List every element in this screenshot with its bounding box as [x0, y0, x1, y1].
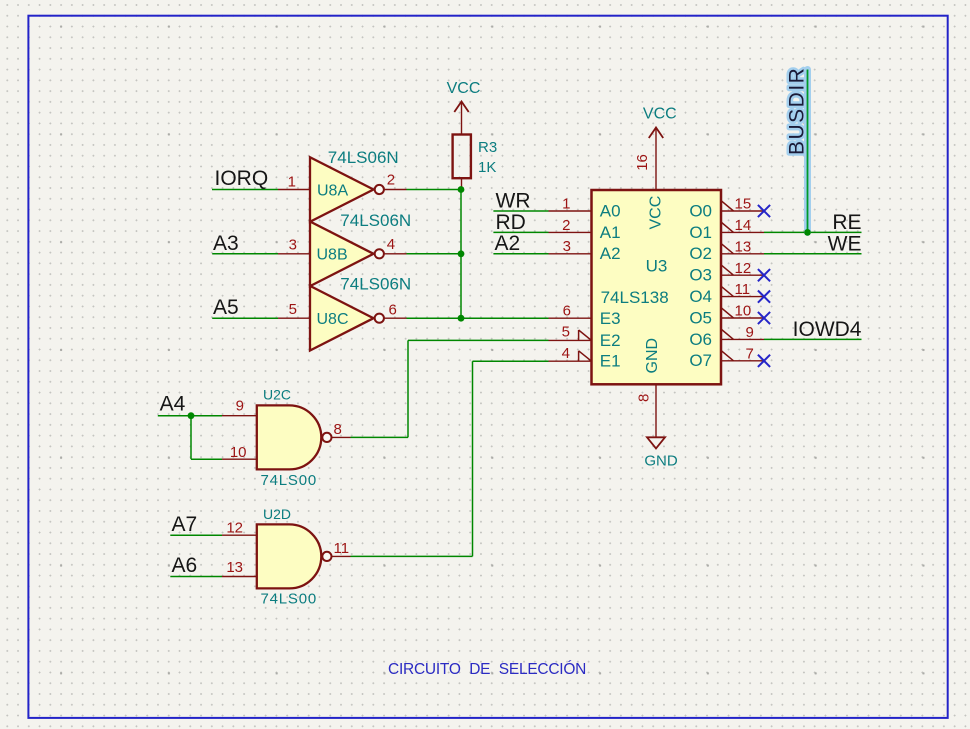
svg-text:A6: A6 — [172, 554, 198, 577]
svg-text:2: 2 — [387, 172, 395, 189]
svg-text:BUSDIR: BUSDIR — [786, 67, 809, 155]
svg-text:A2: A2 — [495, 232, 521, 255]
svg-text:16: 16 — [634, 154, 651, 171]
svg-text:74LS00: 74LS00 — [261, 591, 318, 608]
svg-text:74LS06N: 74LS06N — [328, 148, 399, 167]
svg-text:74LS138: 74LS138 — [601, 288, 669, 307]
svg-text:13: 13 — [735, 238, 752, 255]
svg-text:6: 6 — [563, 303, 571, 320]
svg-text:11: 11 — [334, 540, 350, 557]
svg-text:74LS06N: 74LS06N — [340, 274, 411, 293]
svg-text:U2D: U2D — [263, 506, 291, 522]
svg-text:U8A: U8A — [317, 182, 348, 199]
svg-text:E2: E2 — [600, 331, 621, 350]
svg-text:U2C: U2C — [263, 387, 291, 403]
svg-text:13: 13 — [226, 559, 243, 576]
svg-text:A0: A0 — [600, 201, 621, 220]
svg-text:15: 15 — [735, 196, 752, 213]
svg-text:O6: O6 — [689, 330, 712, 349]
svg-text:1K: 1K — [478, 159, 496, 176]
svg-text:VCC: VCC — [648, 196, 665, 230]
svg-text:A7: A7 — [172, 513, 198, 536]
svg-text:O4: O4 — [689, 287, 712, 306]
svg-text:O2: O2 — [689, 244, 712, 263]
svg-text:GND: GND — [644, 452, 678, 469]
svg-text:14: 14 — [735, 217, 752, 234]
svg-text:O1: O1 — [689, 223, 712, 242]
svg-text:3: 3 — [563, 238, 571, 255]
svg-text:A4: A4 — [160, 393, 186, 416]
svg-text:U8C: U8C — [317, 311, 349, 328]
svg-text:7: 7 — [746, 345, 754, 362]
svg-text:11: 11 — [735, 281, 751, 298]
svg-text:U3: U3 — [646, 257, 668, 276]
svg-text:E3: E3 — [600, 309, 621, 328]
svg-text:WR: WR — [496, 190, 531, 213]
svg-text:1: 1 — [562, 195, 570, 212]
svg-text:74LS06N: 74LS06N — [340, 211, 411, 230]
svg-text:A3: A3 — [213, 232, 239, 255]
svg-text:WE: WE — [828, 232, 862, 255]
svg-text:8: 8 — [334, 421, 342, 438]
svg-text:2: 2 — [562, 217, 570, 234]
svg-text:A5: A5 — [213, 296, 239, 319]
svg-text:1: 1 — [288, 174, 296, 191]
svg-text:5: 5 — [562, 324, 570, 341]
svg-text:IORQ: IORQ — [215, 167, 269, 190]
svg-text:VCC: VCC — [643, 106, 677, 123]
svg-text:4: 4 — [562, 345, 570, 362]
svg-text:A2: A2 — [600, 244, 621, 263]
svg-text:R3: R3 — [478, 139, 497, 156]
svg-text:RE: RE — [832, 211, 861, 234]
svg-text:4: 4 — [387, 236, 395, 253]
svg-text:5: 5 — [289, 301, 297, 318]
svg-text:A1: A1 — [600, 223, 621, 242]
svg-text:O5: O5 — [689, 308, 712, 327]
svg-text:RD: RD — [496, 211, 526, 234]
svg-text:12: 12 — [735, 260, 752, 277]
svg-text:O0: O0 — [689, 201, 712, 220]
svg-text:CIRCUITO DE SELECCIÓN: CIRCUITO DE SELECCIÓN — [388, 661, 586, 678]
svg-text:3: 3 — [289, 237, 297, 254]
svg-text:VCC: VCC — [447, 80, 481, 97]
svg-text:O3: O3 — [689, 266, 712, 285]
svg-text:6: 6 — [389, 302, 397, 319]
svg-text:IOWD4: IOWD4 — [793, 318, 862, 341]
svg-text:8: 8 — [636, 394, 653, 402]
svg-text:9: 9 — [746, 324, 754, 341]
svg-text:E1: E1 — [600, 352, 621, 371]
svg-text:U8B: U8B — [317, 247, 348, 264]
svg-text:9: 9 — [236, 398, 244, 415]
svg-text:12: 12 — [226, 520, 243, 537]
svg-text:O7: O7 — [689, 351, 712, 370]
svg-text:GND: GND — [644, 338, 661, 374]
svg-text:74LS00: 74LS00 — [261, 472, 318, 489]
svg-text:10: 10 — [735, 303, 752, 320]
svg-text:10: 10 — [230, 444, 247, 461]
